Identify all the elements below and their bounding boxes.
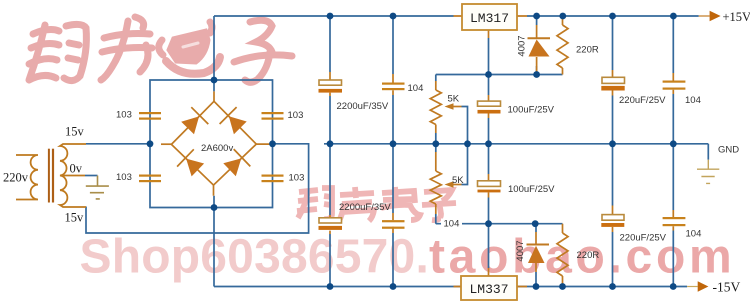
wire 220uF right column — [612, 16, 614, 287]
wire 2200uF column — [329, 16, 331, 287]
potentiometer 5K bottom zigzag — [430, 171, 441, 204]
LM337 box leads — [454, 286, 528, 288]
diode 4007 top symbol — [528, 38, 551, 56]
bridge diode D3 bottom-left — [177, 149, 204, 176]
bridge diode D4 bottom-right — [223, 149, 250, 176]
svg-text:2A600v: 2A600v — [201, 143, 233, 154]
wire pot columns — [435, 75, 437, 224]
svg-text:4007: 4007 — [517, 35, 528, 56]
svg-text:103: 103 — [288, 110, 304, 121]
resistor R 220R top zigzag — [557, 25, 568, 68]
svg-text:220v: 220v — [3, 171, 29, 185]
svg-text:104: 104 — [685, 95, 701, 106]
svg-text:+15V: +15V — [723, 10, 750, 24]
capacitor 2200uF/35V top electrolytic — [319, 80, 343, 93]
capacitor 104 right bottom plates — [663, 217, 686, 226]
svg-text:4007: 4007 — [515, 240, 526, 261]
wire adj top horizontal — [436, 74, 563, 76]
watermark top-left calligraphy 子 — [234, 20, 292, 82]
capacitor 220uF/25V top electrolytic — [601, 77, 624, 90]
bridge top stub — [213, 91, 215, 101]
wire GND drop — [707, 144, 709, 160]
potentiometer 5K top zigzag — [430, 90, 441, 125]
wire bridge outer rectangle — [150, 80, 273, 208]
svg-text:220uF/25V: 220uF/25V — [620, 233, 667, 244]
capacitor 104 mid top plates — [382, 83, 405, 91]
bridge bottom stub — [213, 185, 215, 196]
capacitor 220uF right leads — [612, 70, 614, 232]
svg-text:5K: 5K — [452, 175, 464, 186]
arrow lead +15V — [699, 15, 710, 17]
resistor R 220R bottom zigzag — [557, 233, 568, 276]
regulator U2 LM337 box — [461, 276, 517, 300]
capacitor C_2200 bottom leads — [329, 215, 331, 234]
watermark top-left calligraphy 翔 — [29, 24, 86, 80]
capacitor 104 mid bottom plates — [382, 220, 405, 229]
svg-text:103: 103 — [116, 110, 132, 121]
capacitor 100uF top leads — [488, 95, 490, 118]
wire adj bottom horizontal — [436, 223, 563, 225]
svg-text:100uF/25V: 100uF/25V — [508, 184, 555, 195]
resistor 220R bottom leads — [562, 224, 564, 287]
svg-text:LM317: LM317 — [470, 11, 509, 26]
svg-text:103: 103 — [289, 173, 305, 184]
transformer T1 core — [48, 149, 54, 203]
wire 0v tap horizontal — [85, 175, 98, 177]
watermark middle 翔声电子 bold — [297, 187, 456, 221]
wire 104 right column — [672, 16, 674, 287]
svg-text:104: 104 — [686, 229, 702, 240]
orange leads — [161, 16, 710, 287]
diode 4007 bottom symbol — [527, 245, 550, 264]
bridge right stub — [256, 143, 272, 145]
capacitor 103 top-right plates — [262, 112, 284, 120]
capacitor 104 right top plates — [663, 81, 686, 90]
arrow +15V — [710, 11, 721, 21]
svg-text:LM337: LM337 — [469, 282, 508, 297]
regulator U1 LM317 box — [462, 4, 517, 30]
wire pot wiper bottom — [462, 144, 468, 185]
svg-text:5K: 5K — [448, 94, 460, 105]
capacitor 220uF/25V bottom electrolytic — [601, 215, 624, 227]
ground symbol GND right — [697, 160, 719, 184]
svg-text:2200uF/35V: 2200uF/35V — [339, 202, 391, 213]
svg-text:100uF/25V: 100uF/25V — [508, 105, 555, 116]
pot leads — [435, 81, 437, 214]
wire transformer 15v top tap to bridge — [86, 143, 150, 145]
svg-text:220uF/25V: 220uF/25V — [619, 95, 666, 106]
capacitor 104 mid leads — [392, 74, 394, 233]
wire top rail — [214, 16, 699, 91]
arrow -15V — [698, 281, 709, 292]
nodes junction dots — [147, 13, 677, 290]
watermark top-left calligraphy 声 — [101, 17, 152, 80]
watermark top-left calligraphy 电 — [159, 22, 220, 74]
svg-text:104: 104 — [444, 219, 460, 230]
capacitor C_2200 top leads — [329, 72, 331, 96]
wire transformer 15v bottom tap AC loop — [86, 144, 309, 233]
svg-text:103: 103 — [116, 172, 132, 183]
diode 4007 bottom leads — [535, 232, 537, 272]
capacitor 2200uF/35V bottom electrolytic — [319, 218, 343, 230]
capacitor 100uF/25V top electrolytic — [478, 101, 501, 113]
transformer T1 primary coil — [16, 155, 38, 200]
svg-text:104: 104 — [408, 83, 424, 94]
capacitor 100uF bottom leads — [488, 174, 490, 198]
diamond edges — [171, 101, 256, 185]
wire LM337 adj column — [488, 144, 490, 268]
capacitor 103 top-left plates — [139, 112, 161, 120]
svg-text:220R: 220R — [576, 45, 599, 56]
wire pot wiper top — [462, 107, 468, 144]
wire 104 mid column — [392, 16, 394, 287]
svg-text:15v: 15v — [65, 211, 85, 225]
potentiometer 5K bottom wiper arrow — [445, 181, 462, 188]
bridge left stub — [161, 143, 171, 145]
svg-text:2200uF/35V: 2200uF/35V — [337, 101, 389, 112]
capacitor 103 bottom-right plates — [262, 175, 284, 183]
label 104 mid bottom — [441, 219, 462, 230]
arrow lead -15V — [687, 286, 698, 288]
ground symbol at 0v tap — [86, 176, 109, 199]
svg-text:220R: 220R — [577, 250, 600, 261]
capacitor 104 right leads — [672, 73, 674, 231]
LM317 adj stub — [488, 30, 490, 38]
wire middle rail — [324, 143, 708, 145]
wire bottom rail — [214, 196, 687, 287]
bridge diode D1 top-left — [181, 107, 208, 134]
transformer T1 secondary coil — [60, 144, 86, 207]
svg-text:0v: 0v — [70, 162, 83, 176]
LM337 adj stub — [488, 268, 490, 276]
potentiometer 5K top wiper arrow — [445, 103, 462, 110]
wire LM317 adj column — [488, 38, 490, 144]
svg-text:15v: 15v — [65, 125, 85, 139]
resistor 220R top leads — [562, 16, 564, 75]
svg-text:-15V: -15V — [713, 280, 741, 295]
capacitor 100uF/25V bottom electrolytic — [478, 181, 501, 193]
wire diode 4007 columns blue parts — [535, 16, 538, 287]
capacitor 103 bottom-left plates — [139, 175, 161, 183]
diode 4007 top leads — [536, 25, 538, 75]
bridge diode D2 top-right — [220, 107, 247, 134]
svg-text:GND: GND — [718, 145, 739, 156]
LM317 box leads — [454, 15, 528, 17]
